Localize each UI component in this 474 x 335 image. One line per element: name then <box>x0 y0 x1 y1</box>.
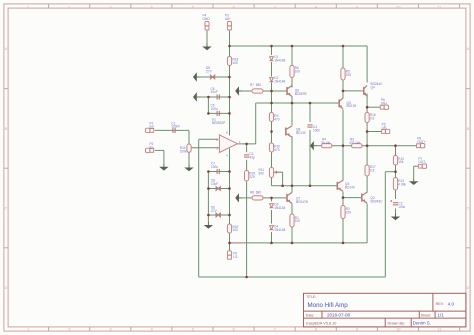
svg-text:500: 500 <box>259 171 264 175</box>
svg-text:U6+: U6+ <box>225 17 231 21</box>
svg-text:680: 680 <box>256 191 261 195</box>
svg-text:UR-: UR- <box>382 126 388 130</box>
svg-text:1N4148: 1N4148 <box>274 228 285 232</box>
svg-text:OUT+: OUT+ <box>417 140 426 144</box>
svg-text:4.99k: 4.99k <box>398 182 406 186</box>
svg-text:470 1W: 470 1W <box>349 141 360 145</box>
svg-text:0.5: 0.5 <box>370 116 375 120</box>
svg-text:100k: 100k <box>180 149 187 153</box>
svg-text:D: D <box>5 285 8 290</box>
svg-text:220: 220 <box>346 73 351 77</box>
svg-text:10uF: 10uF <box>211 90 218 94</box>
svg-text:100u: 100u <box>398 205 405 209</box>
svg-text:Sheet:: Sheet: <box>421 313 431 317</box>
svg-text:100: 100 <box>295 219 300 223</box>
svg-text:Denim S.: Denim S. <box>413 320 431 325</box>
svg-text:TITLE:: TITLE: <box>306 295 316 299</box>
svg-text:Drawn By:: Drawn By: <box>388 321 406 325</box>
svg-text:39 1W: 39 1W <box>321 141 330 145</box>
svg-text:470: 470 <box>274 148 279 152</box>
svg-text:BD139: BD139 <box>347 104 357 108</box>
svg-text:10: 10 <box>396 4 401 9</box>
svg-text:10k: 10k <box>398 160 403 164</box>
svg-text:Z7V: Z7V <box>211 209 218 213</box>
svg-text:BC547B: BC547B <box>296 200 308 204</box>
svg-text:C: C <box>5 205 8 210</box>
svg-text:GND: GND <box>203 17 211 21</box>
svg-text:10uF: 10uF <box>211 182 218 186</box>
svg-text:1N4148: 1N4148 <box>274 80 285 84</box>
svg-text:R7: R7 <box>250 83 254 87</box>
svg-text:100: 100 <box>233 61 238 65</box>
svg-text:100nF: 100nF <box>171 125 180 129</box>
svg-text:1N4148: 1N4148 <box>274 58 285 62</box>
svg-text:IN+: IN+ <box>150 125 155 129</box>
svg-text:D: D <box>467 285 470 290</box>
svg-text:2018-07-08: 2018-07-08 <box>327 312 351 317</box>
svg-text:BD140: BD140 <box>345 185 355 189</box>
svg-text:NE5532P: NE5532P <box>212 121 225 125</box>
svg-text:UR+: UR+ <box>381 101 388 105</box>
svg-text:B: B <box>467 126 470 131</box>
svg-text:100: 100 <box>295 70 300 74</box>
svg-text:1N4148: 1N4148 <box>274 206 285 210</box>
svg-text:REV:: REV: <box>436 302 444 306</box>
svg-text:220: 220 <box>346 211 351 215</box>
svg-text:1/1: 1/1 <box>438 312 445 317</box>
svg-text:LS-: LS- <box>233 255 238 259</box>
svg-text:BC557B: BC557B <box>295 92 307 96</box>
svg-text:4.0: 4.0 <box>448 302 455 307</box>
svg-text:100n: 100n <box>313 128 320 132</box>
svg-text:0.5: 0.5 <box>370 168 375 172</box>
svg-text:470: 470 <box>274 118 279 122</box>
svg-text:BD243C: BD243C <box>371 199 384 203</box>
svg-text:BD139: BD139 <box>296 131 306 135</box>
svg-text:100u: 100u <box>211 107 218 111</box>
svg-text:Mono Hifi Amp: Mono Hifi Amp <box>308 302 349 309</box>
svg-text:43p: 43p <box>249 155 254 159</box>
svg-text:EasyEDA V5.8.10: EasyEDA V5.8.10 <box>306 321 336 325</box>
svg-text:IN-: IN- <box>150 145 154 149</box>
svg-text:Z7V: Z7V <box>206 69 213 73</box>
svg-text:680: 680 <box>256 83 261 87</box>
svg-text:100u: 100u <box>211 165 218 169</box>
svg-text:Date:: Date: <box>306 313 315 317</box>
svg-text:R8: R8 <box>250 191 254 195</box>
svg-text:B: B <box>5 126 8 131</box>
svg-text:A: A <box>5 46 8 51</box>
svg-text:A: A <box>467 46 470 51</box>
svg-text:C: C <box>467 205 470 210</box>
svg-text:220: 220 <box>249 175 254 179</box>
svg-text:OUT-: OUT- <box>418 160 426 164</box>
svg-text:Q4: Q4 <box>371 85 375 89</box>
svg-text:100: 100 <box>233 228 238 232</box>
